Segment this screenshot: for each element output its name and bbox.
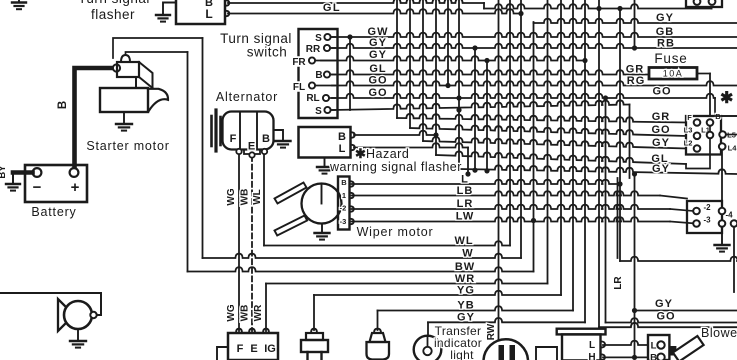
svg-text:-3: -3 xyxy=(340,217,347,226)
switch terminal FR xyxy=(292,57,315,68)
svg-text:GY: GY xyxy=(656,12,674,24)
svg-text:GY: GY xyxy=(457,311,475,323)
wire: LW slope into terminal -3 xyxy=(670,222,693,224)
labels GR RG (fuse wires) xyxy=(626,64,646,88)
junction at (436,135) xyxy=(433,132,438,137)
light switch terminal L1 xyxy=(707,132,714,155)
wire: wire GY to light switch L2 xyxy=(423,137,686,149)
hazard warning signal flasher box xyxy=(299,127,351,158)
label Wiper motor xyxy=(357,225,434,239)
svg-text:light: light xyxy=(450,348,474,360)
wire: vertical bus segment x=314 y=295-330 xyxy=(313,295,315,330)
wiper terminal B xyxy=(350,181,354,187)
junction at (487,60.5) xyxy=(484,58,489,63)
labels WG WB WL (upper) xyxy=(226,188,263,205)
wire: wire WL xyxy=(264,241,510,245)
fuel gauge xyxy=(484,339,529,360)
label Fuse xyxy=(654,51,687,66)
voltage regulator xyxy=(217,329,278,360)
blower fan blade xyxy=(673,336,704,360)
junction at (459,98) xyxy=(456,95,461,100)
wire: flasher B feed (lower run) xyxy=(484,4,712,8)
svg-text:FL: FL xyxy=(293,82,305,93)
svg-text:✱: ✱ xyxy=(355,146,366,161)
wiper terminal 2 xyxy=(350,206,354,212)
svg-text:B: B xyxy=(315,70,322,81)
ground (connector) xyxy=(715,227,730,252)
wire: LR slope into terminal -2 xyxy=(670,209,693,211)
label RW xyxy=(486,323,497,340)
svg-text:+: + xyxy=(71,179,80,196)
wire: vertical bus segment x=711.5 y=7-8.5 xyxy=(711,7,713,9)
labels GY GO (bottom right) xyxy=(655,298,676,323)
wire: wire YB / GY right xyxy=(635,310,737,312)
svg-text:GO: GO xyxy=(652,86,671,98)
light switch terminal L2 xyxy=(694,145,701,152)
wire stubs from switch terminals xyxy=(315,37,335,110)
svg-text:LR: LR xyxy=(457,198,474,210)
wire: hazard L drop to GY row xyxy=(467,148,469,175)
light switch terminal B xyxy=(707,119,714,132)
svg-text:GO: GO xyxy=(368,87,387,99)
svg-text:B: B xyxy=(57,101,69,109)
connector terminal (bottom) xyxy=(719,220,726,227)
battery xyxy=(25,165,87,202)
svg-text:RR: RR xyxy=(306,44,321,55)
junction at (634.5,357.4) xyxy=(632,355,637,360)
connector terminal -2 xyxy=(693,208,700,215)
wire: vertical bus segment x=533.5 y=22-271.5 xyxy=(533,22,535,272)
wire: vertical bus segment x=634.5 y=0-48 xyxy=(634,0,636,48)
wiper/washer switch connector xyxy=(687,201,733,233)
junction at (533.5,220.5) xyxy=(531,218,536,223)
label LR xyxy=(613,276,624,290)
wire: wire GL under light switch xyxy=(436,151,686,164)
wire: vertical bus segment x=617.5 y=178-258 xyxy=(617,178,619,258)
junction at (487,170.9) xyxy=(484,168,489,173)
svg-text:10A: 10A xyxy=(663,69,684,79)
junction at (620,184) xyxy=(617,181,622,186)
switch terminal RR xyxy=(306,44,330,55)
alternator terminal WL xyxy=(262,149,267,154)
horn xyxy=(58,299,97,331)
svg-text:-2: -2 xyxy=(703,203,711,212)
svg-text:Blower: Blower xyxy=(701,326,737,340)
labels WL W BW WR YG YB GY (harness to dash) xyxy=(454,235,475,323)
top right connector (cut off) xyxy=(686,0,722,7)
alternator pulley xyxy=(212,110,221,151)
wiper arm (lower) xyxy=(275,216,308,236)
svg-text:switch: switch xyxy=(247,45,288,60)
battery ground cable BY xyxy=(0,165,33,191)
svg-text:GY: GY xyxy=(652,163,670,175)
wire: vertical bus segment x=521 y=0-258 xyxy=(520,0,522,258)
light switch terminal L5 xyxy=(719,131,737,138)
wire: wire switch L to blower xyxy=(603,341,648,345)
lighting control switch xyxy=(557,329,606,360)
svg-text:−: − xyxy=(33,179,42,196)
svg-text:WR: WR xyxy=(455,273,475,285)
svg-text:H: H xyxy=(588,352,595,360)
svg-text:GR: GR xyxy=(626,64,645,76)
wire from solenoid top to BW wire (inner loop) xyxy=(126,52,188,55)
wire: vertical bus segment x=239 y=153-331 xyxy=(238,153,240,331)
svg-text:Alternator: Alternator xyxy=(216,90,278,104)
wire corner: GL wire routes under connector to L1 xyxy=(686,155,710,169)
label Turn signal switch xyxy=(220,31,292,60)
svg-text:WL: WL xyxy=(252,189,263,205)
svg-text:Wiper motor: Wiper motor xyxy=(357,225,434,239)
wire: vertical bus segment x=410 y=0-128 xyxy=(409,0,411,128)
wire: wire GY/RB xyxy=(332,44,737,48)
wire: wire GW/GB xyxy=(332,33,737,37)
wire: vertical bus segment x=397 y=0-118 xyxy=(396,0,398,118)
wire: vertical bus segment x=710 y=73.5-116 xyxy=(709,74,711,117)
label Hazard warning signal flasher xyxy=(329,146,462,174)
svg-text:BW: BW xyxy=(455,261,475,273)
svg-text:RL: RL xyxy=(306,93,319,104)
wire: wire from S (bottom) xyxy=(332,100,630,110)
svg-text:YB: YB xyxy=(457,300,474,312)
wire: vertical bus segment x=561 y=0-295 xyxy=(560,0,562,295)
connector terminal -4 xyxy=(731,220,737,227)
wire: wire WR xyxy=(266,279,548,283)
wire: wire GY (top right) xyxy=(534,19,737,23)
wire: vertical bus segment x=585 y=0-322.3 xyxy=(584,0,586,322)
wire: vertical bus segment x=101 y=293-315 xyxy=(100,293,102,315)
wire: wire (bottom right run) xyxy=(599,323,737,327)
wire: vertical bus segment x=350 y=37-110 xyxy=(349,37,351,110)
svg-text:Fuse: Fuse xyxy=(654,51,687,66)
wire from connector top to edge xyxy=(711,115,737,117)
label Transfer indicator light xyxy=(434,324,482,360)
wire: wire from hazard L xyxy=(354,143,468,147)
svg-text:BY: BY xyxy=(0,165,8,179)
svg-text:LW: LW xyxy=(456,211,475,223)
svg-text:warning signal flasher: warning signal flasher xyxy=(329,160,462,174)
ground (top left, turn signal flasher) xyxy=(12,0,26,9)
wire: wire LR from wiper xyxy=(352,205,671,209)
label Alternator xyxy=(216,90,278,104)
wire: wire BW xyxy=(188,267,534,271)
svg-text:RB: RB xyxy=(657,38,675,50)
svg-text:GY: GY xyxy=(655,298,673,310)
svg-text:RW: RW xyxy=(486,323,497,340)
wire: vertical bus segment x=448 y=0-85.5 xyxy=(447,0,449,86)
wiper arm (upper) xyxy=(275,183,307,204)
ground xyxy=(324,158,326,168)
svg-text:L4: L4 xyxy=(728,144,737,153)
svg-text:WG: WG xyxy=(226,304,237,321)
wire: wire L from wiper xyxy=(352,180,621,184)
ground xyxy=(123,112,125,124)
wire: wire GY (from FR) xyxy=(321,56,585,60)
labels GW GY GY GL GO GO (switch wires) xyxy=(368,26,389,99)
svg-text:L: L xyxy=(339,143,346,155)
blower motor link xyxy=(669,346,676,356)
ground (hazard flasher) xyxy=(317,158,332,174)
svg-text:GL: GL xyxy=(369,63,386,75)
svg-text:GY: GY xyxy=(369,49,387,61)
svg-text:WB: WB xyxy=(240,305,251,322)
wiper motor xyxy=(302,184,342,224)
label Turn signal flasher xyxy=(78,0,150,22)
svg-text:L3: L3 xyxy=(684,126,693,135)
wire: vertical bus segment x=266 y=283.5-331 xyxy=(265,284,267,332)
wire: vertical bus segment x=475 y=48-170.2 xyxy=(474,48,476,170)
light switch connector xyxy=(684,112,737,155)
junction at (459,110) xyxy=(456,107,461,112)
light switch terminal L3 xyxy=(694,133,701,140)
svg-text:B: B xyxy=(338,131,346,143)
wire: vertical bus segment x=202.5 y=38-258 xyxy=(202,38,204,258)
wire: LB slope into connector corner xyxy=(660,196,687,199)
ground xyxy=(321,224,323,234)
transfer indicator light xyxy=(414,336,442,360)
svg-text:FR: FR xyxy=(292,57,306,68)
junction at (599,8.5) xyxy=(596,6,601,11)
wire: vertical bus segment x=605.5 y=98-322.5 xyxy=(605,98,607,323)
wire: vertical bus segment x=459 y=0-169 xyxy=(458,0,460,169)
ground (wiper motor) xyxy=(315,224,330,240)
svg-text:GO: GO xyxy=(656,311,675,323)
label Starter motor xyxy=(86,139,169,153)
wire: wire LB from wiper xyxy=(352,191,661,195)
junction at (634.5,310.5) xyxy=(632,308,637,313)
junction at (475,170.2) xyxy=(472,168,477,173)
wire: flasher B feed xyxy=(228,0,484,3)
svg-text:GO: GO xyxy=(651,124,670,136)
svg-text:Battery: Battery xyxy=(31,205,76,219)
alternator body xyxy=(223,112,274,155)
junction at (634.5,174) xyxy=(632,171,637,176)
wire: vertical bus segment x=634.5 y=174-357.4 xyxy=(634,174,636,357)
hazard terminal L xyxy=(351,145,355,151)
switch terminal RL xyxy=(306,93,329,104)
svg-text:✱: ✱ xyxy=(720,90,733,107)
wire: vertical bus segment x=629.5 y=104.5-178 xyxy=(629,105,631,179)
svg-text:GB: GB xyxy=(656,26,675,38)
junction at (468,174) xyxy=(465,171,470,176)
connector terminal (top right) xyxy=(719,208,726,215)
label GL xyxy=(323,2,341,14)
wire: vertical bus segment x=487 y=60.5-170.9 xyxy=(486,61,488,171)
switch terminal FL xyxy=(293,82,315,93)
junction at (475,48) xyxy=(472,45,477,50)
wire: vertical bus segment x=498.5 y=0-339 xyxy=(498,0,500,339)
svg-text:LB: LB xyxy=(457,185,474,197)
svg-text:L: L xyxy=(651,341,657,352)
switch terminal B xyxy=(315,70,330,81)
svg-text:-2: -2 xyxy=(340,204,347,213)
wire corner: GO right segment drops to connector top line xyxy=(715,98,737,116)
wire stub near gauge xyxy=(536,347,557,360)
battery cable B (thick) from battery + to starter solenoid xyxy=(57,68,114,170)
light switch terminal F xyxy=(694,119,701,126)
wiper connector xyxy=(338,177,350,230)
svg-text:E: E xyxy=(250,343,257,355)
wire: vertical bus segment x=620 y=8.5-261 xyxy=(619,9,621,262)
ground (starter motor) xyxy=(116,112,132,131)
wiper terminal 1 xyxy=(350,193,354,199)
wire: vertical bus segment x=484 y=3-8.5 xyxy=(483,3,485,9)
svg-text:F: F xyxy=(687,113,692,122)
ground xyxy=(77,329,79,341)
wire: wire GO (from RL) xyxy=(332,94,715,98)
solenoid to motor linkage xyxy=(136,62,153,88)
ground (alternator B) xyxy=(274,130,291,148)
wire: vertical bus segment x=423 y=0-141 xyxy=(422,0,424,141)
svg-text:S: S xyxy=(315,33,322,44)
label Blower xyxy=(701,326,737,340)
svg-text:E: E xyxy=(248,141,255,153)
wire from solenoid to W wire (outer loop) xyxy=(113,38,203,58)
fuse 10A xyxy=(649,68,710,80)
svg-text:WB: WB xyxy=(240,189,251,206)
wire: vertical bus segment x=722 y=150-208 xyxy=(721,150,723,208)
alternator terminal E xyxy=(249,152,254,157)
svg-text:LR: LR xyxy=(613,276,624,290)
wire: wire GY (lower) xyxy=(459,165,737,174)
svg-text:S: S xyxy=(315,106,322,117)
label GO and asterisk xyxy=(652,86,733,108)
wire: wire GO (bottom right) xyxy=(606,318,737,322)
svg-text:GL: GL xyxy=(323,2,341,14)
wire: vertical bus segment x=599 y=0-327.2 xyxy=(598,0,600,327)
label Battery xyxy=(31,205,76,219)
wire: wire LW from wiper xyxy=(352,217,671,221)
wire: wire from hazard B xyxy=(354,131,436,135)
svg-text:flasher: flasher xyxy=(91,7,135,22)
svg-text:IG: IG xyxy=(264,343,276,355)
junction at (585,60.5) xyxy=(582,58,587,63)
blower connector xyxy=(648,335,669,360)
svg-text:B: B xyxy=(650,353,657,360)
wire: wire GY to transfer light xyxy=(428,318,585,322)
wire: wire GR to light switch F xyxy=(397,114,686,123)
labels GR GO GY GL GY (to light switch) xyxy=(651,111,670,175)
junction at (605.5,98) xyxy=(603,95,608,100)
svg-text:-3: -3 xyxy=(703,216,711,225)
wire: vertical bus segment x=510 y=0-245.5 xyxy=(509,0,511,246)
starter motor body xyxy=(100,88,168,112)
wire: wire W xyxy=(203,254,522,258)
svg-text:YG: YG xyxy=(457,285,475,297)
switch terminal S (bottom) xyxy=(315,106,330,117)
labels WG WB WR (lower) xyxy=(226,304,264,322)
wire: vertical bus segment x=187.5 y=52-271.5 xyxy=(187,52,189,272)
light switch terminal L4 xyxy=(719,143,726,150)
svg-text:GR: GR xyxy=(652,111,671,123)
svg-text:-4: -4 xyxy=(725,211,733,220)
junction at (634.5,48) xyxy=(632,45,637,50)
wire: vertical bus segment x=436 y=0-155 xyxy=(435,0,437,155)
labels L LB LR LW xyxy=(456,174,475,223)
junction at (448,85.5) xyxy=(445,83,450,88)
connector terminal -3 xyxy=(693,220,700,227)
labels GY GB RB (top right) xyxy=(656,12,675,50)
wire: wire switch H to blower xyxy=(603,356,648,358)
ground (horn) xyxy=(70,329,86,348)
svg-text:F: F xyxy=(237,343,244,355)
svg-text:GY: GY xyxy=(369,37,387,49)
junction at (521,13.5) xyxy=(518,11,523,16)
turn signal flasher box xyxy=(176,0,225,24)
turn signal switch box xyxy=(299,29,338,118)
svg-text:WR: WR xyxy=(253,304,264,321)
ignition coil xyxy=(301,329,328,360)
svg-text:L: L xyxy=(461,174,469,186)
svg-text:L: L xyxy=(589,340,595,351)
wire: wire GL/GR to fuse xyxy=(332,70,649,74)
wire: vertical bus segment x=547.5 y=0-283.5 xyxy=(547,0,549,284)
terminal B of flasher xyxy=(225,0,229,6)
wire: vertical bus segment x=377.5 y=310.5-330 xyxy=(377,311,379,331)
svg-text:RG: RG xyxy=(627,75,646,87)
wire to horn xyxy=(0,293,101,315)
starter solenoid xyxy=(113,55,139,77)
wire: wire W (right segment) xyxy=(620,257,737,261)
wire: vertical bus segment x=734 y=226.5-292 xyxy=(733,227,735,293)
wire WB (dashed) from alternator E to regulator E xyxy=(251,156,253,331)
wire: vertical bus segment x=573 y=0-310.5 xyxy=(572,0,574,311)
svg-text:GO: GO xyxy=(368,75,387,87)
wire: wire GO to light switch L3 xyxy=(410,124,686,136)
condenser xyxy=(367,329,390,360)
svg-text:1: 1 xyxy=(342,191,346,200)
ground (turn signal flasher case) xyxy=(156,3,176,22)
wire: wire GL from flasher L xyxy=(228,9,521,13)
wiper terminal 3 xyxy=(350,219,354,225)
ground xyxy=(721,227,723,245)
junction at (620,8.5) xyxy=(617,6,622,11)
svg-text:L: L xyxy=(205,7,212,21)
svg-text:WG: WG xyxy=(226,188,237,205)
alternator terminal F xyxy=(236,149,241,154)
svg-text:B: B xyxy=(341,178,347,187)
wire: wire GO/RG xyxy=(332,81,737,85)
svg-text:Starter motor: Starter motor xyxy=(86,139,169,153)
svg-text:W: W xyxy=(462,248,473,260)
wire: vertical bus segment x=264 y=153-245.5 xyxy=(263,153,265,246)
svg-text:L2: L2 xyxy=(684,139,693,148)
hazard terminal B xyxy=(351,132,355,138)
svg-text:GY: GY xyxy=(652,137,670,149)
wire: wire YG xyxy=(314,291,561,295)
wire: wire YB / GY right xyxy=(378,306,574,310)
svg-text:F: F xyxy=(230,133,237,145)
wire: vertical bus segment x=428 y=322.3-336 xyxy=(427,322,429,336)
switch terminal S (top) xyxy=(315,33,330,44)
svg-text:B: B xyxy=(262,133,270,145)
svg-text:Hazard: Hazard xyxy=(366,147,409,161)
terminal L of flasher xyxy=(225,11,229,17)
svg-text:Turn signal: Turn signal xyxy=(78,0,150,6)
svg-text:WL: WL xyxy=(454,235,473,247)
junction at (350,37) xyxy=(347,34,352,39)
